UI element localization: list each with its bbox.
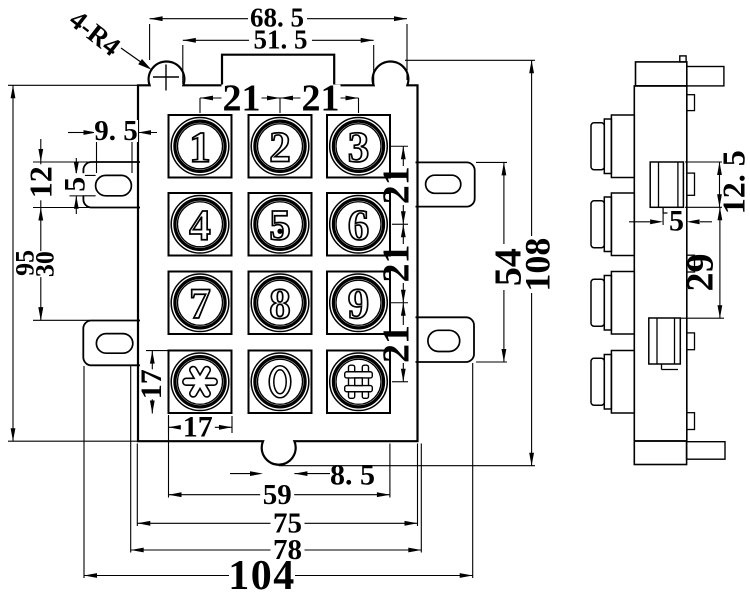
side view: lower ear bracket [649,318,681,370]
svg-text:2: 2 [269,124,291,171]
dimension 21 horizontal pitch (top, two segments) [200,96,359,113]
svg-text:1: 1 [189,124,211,171]
key 4 [169,193,232,256]
key 6 [327,193,390,256]
dimension 108 (overall height) [279,60,535,465]
leader note 4-R4 pointing at bump radius [121,48,152,70]
dimension 51.5 (width between bumps) [183,38,374,84]
side view: upper ear bracket [650,162,683,213]
side view: button 4 (base, shoulder, cap) [591,351,634,414]
side view: bottom cap block [634,441,686,465]
svg-text:5: 5 [269,202,291,249]
lower-left mounting ear [83,321,140,366]
side view: button 3 (base, shoulder, cap) [591,272,634,335]
svg-text:4: 4 [189,202,211,249]
label 59 [260,483,294,507]
dimension 21 vertical pitch chain (right side, three segments) [391,146,408,382]
svg-text:95: 95 [11,250,40,276]
dimension 17 horizontal (star key square width) [169,416,233,433]
svg-text:5: 5 [58,177,91,192]
dimension 17 vertical (star key square height) [146,351,168,414]
svg-text:21: 21 [376,245,418,283]
dimension 78 (back plate width) [131,366,422,553]
svg-text:12. 5: 12. 5 [716,150,750,214]
upper-right ear oval slot [426,175,461,193]
dimension 95 (panel height) [8,85,138,441]
svg-text:17: 17 [183,411,213,444]
label 5 (left) [65,173,85,195]
label 9.5 [94,120,138,142]
svg-text:59: 59 [263,479,292,511]
dimension 8.5 (bottom notch width) [230,471,330,476]
svg-text:21: 21 [376,325,418,363]
dimension 68.5 (top overall width across bumps) [150,16,407,80]
label 104 [229,561,295,591]
dimension 104 (overall width across ears) [84,363,473,578]
lower-right ear oval slot [428,330,460,351]
label 5 (side) [668,211,686,231]
key 8 [249,272,312,335]
upper-left mounting ear [83,162,140,208]
lower-left ear oval slot [96,334,132,354]
side view: right tab 1 [687,95,695,111]
side view: right tab 4 [687,333,695,350]
svg-text:21: 21 [223,78,261,120]
side view: housing body [634,86,687,441]
key 1 [169,115,232,178]
dimension 9.5 (oval slot length, upper-left) [68,130,157,173]
label 12 [30,164,52,200]
dimension 59 (key block width) [169,415,390,498]
side view: button 2 (base, shoulder, cap) [591,193,634,256]
key 0 [249,351,312,414]
svg-text:9. 5: 9. 5 [94,115,138,147]
svg-text:108: 108 [518,238,558,292]
svg-text:9: 9 [348,281,370,328]
svg-text:5: 5 [669,205,684,238]
dimension 5 (oval slot height) [70,158,96,214]
svg-text:7: 7 [189,281,211,328]
label 30 [36,251,54,277]
label 17 (vertical) [140,369,162,399]
svg-text:8: 8 [269,281,291,328]
dimension 12 (upper-left ear height) [33,139,138,320]
key 3 [327,115,390,178]
svg-text:12: 12 [23,166,59,198]
svg-text:6: 6 [348,202,370,249]
key 2 [249,115,312,178]
svg-text:8. 5: 8. 5 [330,459,375,492]
key 5 [249,193,312,256]
lower-right mounting ear [416,317,475,362]
front view: keypad panel outline with two top bumps, top boss rectangle, bottom notch [138,55,418,465]
svg-text:21: 21 [376,166,418,204]
side view: right tab 2 [687,173,695,195]
svg-text:29: 29 [679,254,721,292]
upper-right mounting ear [416,162,475,206]
center cross mark on left bump [153,76,179,78]
side view: right tab 3 [687,255,695,272]
label 75 [271,511,305,535]
label 78 [271,538,305,562]
svg-text:51. 5: 51. 5 [254,25,308,55]
svg-text:3: 3 [348,124,370,171]
dimension 29 (side view distance between ears) [680,207,724,318]
dimension 75 (panel width) [137,444,417,527]
hash key [327,351,390,414]
key 9 [327,272,390,335]
svg-text:17: 17 [135,369,168,399]
dimension 54 (distance between right ears outer edges) [476,162,507,362]
svg-text:21: 21 [302,78,340,120]
dimension 5 (side view ear offset) [629,213,712,225]
svg-text:104: 104 [228,553,296,595]
side view: top cap block [636,62,687,86]
side view: button 1 (base, shoulder, cap) [591,115,634,178]
dimension 12.5 (side view ear height) [685,162,722,207]
side view: small top stud [680,56,686,62]
side view: right tab 5 [687,413,695,430]
label 17 (horizontal) [181,415,215,439]
key 7 [169,272,232,335]
upper-left ear oval slot [96,175,132,195]
side view: bottom right foot [687,442,725,460]
label 21 (top left) [222,85,262,113]
label 21 (top right) [301,85,341,113]
side view: top right arm [687,67,724,86]
star key [169,351,232,414]
